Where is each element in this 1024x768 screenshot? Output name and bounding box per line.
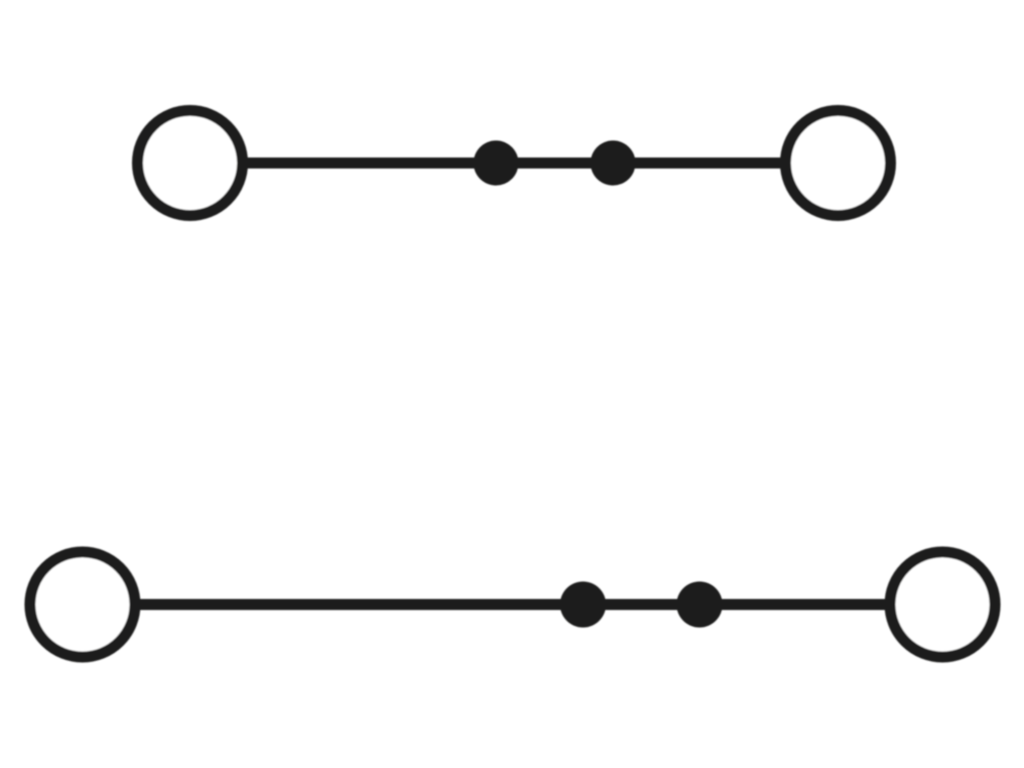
node C lower bridge tap junction [560,582,606,628]
node B upper bridge tap junction [591,141,636,186]
node D lower bridge tap junction [677,582,723,628]
terminal T2 upper-right clamping point [786,111,891,216]
terminal T3 lower-left clamping point [30,552,135,657]
terminal T1 upper-left clamping point [138,111,243,216]
wire upper conductor rail [190,158,838,169]
terminal T4 lower-right clamping point [890,552,995,657]
node A upper bridge tap junction [474,141,519,186]
wire lower conductor rail [83,599,943,610]
